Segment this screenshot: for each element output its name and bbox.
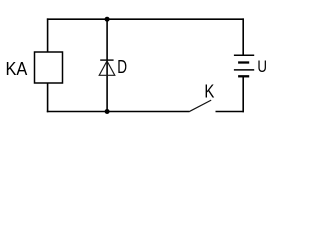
svg-text:D: D — [117, 57, 127, 77]
wire left vertical upper — [47, 18, 49, 52]
svg-text:U: U — [257, 57, 267, 76]
svg-text:K: K — [204, 82, 214, 102]
wire diode branch vertical — [106, 19, 108, 111]
diode D cathode bar — [100, 59, 113, 61]
wire bottom right horizontal — [216, 111, 244, 113]
switch K lever — [189, 100, 211, 112]
relay coil KA — [35, 52, 63, 83]
wire top horizontal — [47, 18, 244, 20]
wire left vertical lower — [47, 83, 49, 112]
battery U plate 1 long — [234, 54, 254, 56]
diode D triangle — [99, 61, 115, 75]
battery U plate 2 short thick — [238, 61, 249, 63]
battery U plate 3 long — [234, 69, 254, 71]
wire right vertical upper — [242, 18, 244, 54]
junction node top — [105, 17, 110, 22]
wire right vertical lower — [242, 76, 244, 112]
battery U plate 4 short thick — [238, 75, 249, 77]
svg-text:KA: KA — [6, 59, 28, 79]
junction node bottom — [105, 109, 110, 114]
wire bottom left horizontal — [47, 111, 189, 113]
